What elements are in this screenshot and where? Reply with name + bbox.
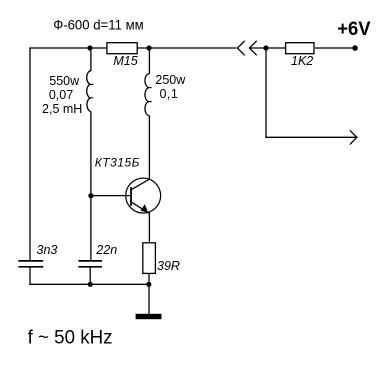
connector chevron left xyxy=(237,41,244,55)
node dot right coil / top rail xyxy=(146,45,151,50)
transistor KT315B xyxy=(95,156,161,214)
resistor 1K2 xyxy=(286,43,314,68)
node dot emitter / bottom rail xyxy=(146,282,151,287)
svg-text:22n: 22n xyxy=(95,243,117,257)
wire feedback vertical xyxy=(265,48,267,137)
wire feedback horizontal xyxy=(265,136,356,138)
svg-text:1K2: 1K2 xyxy=(291,54,313,68)
wire collector vertical xyxy=(148,116,150,180)
wire bottom rail xyxy=(29,283,149,285)
svg-text:2,5 mH: 2,5 mH xyxy=(42,102,82,116)
resistor M15 xyxy=(107,43,138,68)
svg-text:3n3: 3n3 xyxy=(37,243,58,257)
wire 3n3 to bottom rail xyxy=(29,268,31,285)
inductor 250w xyxy=(145,73,186,116)
wire base column upper xyxy=(90,48,92,71)
svg-text:0,1: 0,1 xyxy=(160,87,179,101)
node dot 22n / bottom rail xyxy=(88,282,93,287)
capacitor 22n xyxy=(78,243,117,267)
wire left rail vertical xyxy=(29,47,31,260)
svg-text:39R: 39R xyxy=(157,259,180,273)
svg-text:Ф-600 d=11 мм: Ф-600 d=11 мм xyxy=(53,17,144,33)
wire 39R to ground xyxy=(148,273,150,314)
svg-text:550w: 550w xyxy=(49,74,80,88)
svg-text:f ~ 50 kHz: f ~ 50 kHz xyxy=(28,328,113,349)
capacitor 3n3 xyxy=(18,243,57,267)
connector chevron right xyxy=(249,41,256,55)
node dot 1K2 / feedback branch xyxy=(263,45,268,50)
wire top rail left xyxy=(29,47,236,49)
wire top rail right xyxy=(249,47,285,49)
node dot left coil / top rail xyxy=(87,45,92,50)
svg-text:250w: 250w xyxy=(155,73,186,87)
wire emitter vertical xyxy=(148,213,150,243)
wire 22n to bottom rail xyxy=(89,268,91,285)
node +6V terminal dot xyxy=(352,45,358,51)
resistor 39R xyxy=(143,243,180,274)
wire collector column upper xyxy=(148,48,150,74)
arrow output xyxy=(350,130,357,144)
svg-text:0,07: 0,07 xyxy=(49,88,73,102)
svg-text:КТ315Б: КТ315Б xyxy=(95,156,140,170)
ground xyxy=(136,314,162,319)
wire 1K2 to terminal xyxy=(315,47,355,49)
inductor 550w 2.5mH xyxy=(42,71,93,116)
wire base column lower xyxy=(90,111,92,260)
svg-text:M15: M15 xyxy=(113,54,137,68)
svg-text:+6V: +6V xyxy=(337,18,370,40)
node dot base junction xyxy=(88,193,93,198)
wire base xyxy=(91,195,131,197)
